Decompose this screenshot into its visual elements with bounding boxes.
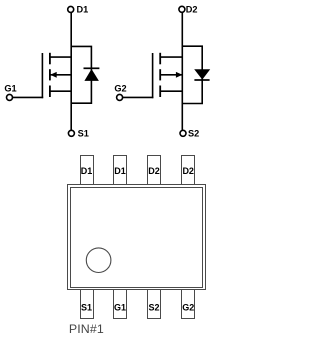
transistor Q2 body lead with arrow [161, 72, 183, 78]
package body outer outline (SO-8) [68, 185, 206, 290]
terminal D2 [179, 6, 185, 12]
pin 2 (bottom) [114, 290, 127, 319]
transistor Q1 drain lead [50, 56, 72, 58]
label S2 [188, 129, 199, 139]
pin 1 label S1 [81, 302, 92, 312]
transistor Q2 drain lead [161, 56, 183, 58]
label PIN#1 [69, 322, 104, 336]
pin 8 (top-left) [81, 156, 94, 185]
pin 1 (bottom-left) [81, 290, 94, 319]
svg-text:G2: G2 [114, 84, 126, 94]
svg-text:D2: D2 [186, 5, 198, 15]
pin 5 (top-right) [182, 156, 195, 185]
svg-text:D1: D1 [114, 166, 126, 176]
terminal G2 [117, 94, 123, 100]
pin 8 label D1 [81, 166, 93, 176]
pin 3 (bottom) [148, 290, 161, 319]
wire G2 lead [123, 96, 154, 98]
terminal S1 [68, 130, 74, 136]
wire Q1 drain-source vertical [70, 12, 72, 130]
wire Q1 body-diode branch [71, 46, 91, 103]
label D2 [186, 5, 198, 15]
transistor Q2 channel segments [159, 53, 161, 97]
pin 2 label G1 [114, 302, 126, 312]
svg-text:S1: S1 [81, 302, 92, 312]
svg-text:S2: S2 [188, 129, 199, 139]
transistor Q1 channel segments [49, 53, 51, 97]
pin 3 label S2 [148, 302, 159, 312]
pin-1 indicator circle [86, 248, 111, 273]
pin 4 label G2 [182, 302, 194, 312]
svg-text:PIN#1: PIN#1 [69, 322, 104, 336]
svg-text:G2: G2 [182, 302, 194, 312]
package body inner outline [71, 188, 203, 288]
wire Q2 body-diode branch [182, 46, 202, 103]
pin 7 (top) [114, 156, 127, 185]
pin 4 (bottom-right) [182, 290, 195, 319]
transistor Q2 gate bar [152, 53, 154, 98]
terminal S2 [180, 130, 186, 136]
label S1 [78, 129, 89, 139]
body diode of Q2 (cathode down) [194, 69, 210, 80]
wire Q2 drain-source vertical [181, 12, 183, 130]
wire G1 lead [13, 96, 44, 98]
svg-text:G1: G1 [4, 84, 16, 94]
pin 5 label D2 [182, 166, 194, 176]
pin 7 label D1 [114, 166, 126, 176]
transistor Q2 source lead [161, 90, 183, 92]
transistor Q1 gate bar [41, 53, 43, 98]
label G2 [114, 84, 126, 94]
terminal D1 [68, 6, 74, 12]
svg-text:S2: S2 [148, 302, 159, 312]
svg-text:D2: D2 [148, 166, 160, 176]
svg-text:S1: S1 [78, 129, 89, 139]
svg-text:G1: G1 [114, 302, 126, 312]
label G1 [4, 84, 16, 94]
transistor Q1 source lead [50, 90, 72, 92]
transistor Q1 body lead with arrow [50, 72, 72, 78]
svg-text:D2: D2 [182, 166, 194, 176]
label D1 [77, 5, 89, 15]
pin 6 (top) [148, 156, 161, 185]
body diode of Q1 (cathode up) [84, 68, 100, 81]
pin 6 label D2 [148, 166, 160, 176]
svg-text:D1: D1 [81, 166, 93, 176]
terminal G1 [7, 94, 13, 100]
svg-text:D1: D1 [77, 5, 89, 15]
